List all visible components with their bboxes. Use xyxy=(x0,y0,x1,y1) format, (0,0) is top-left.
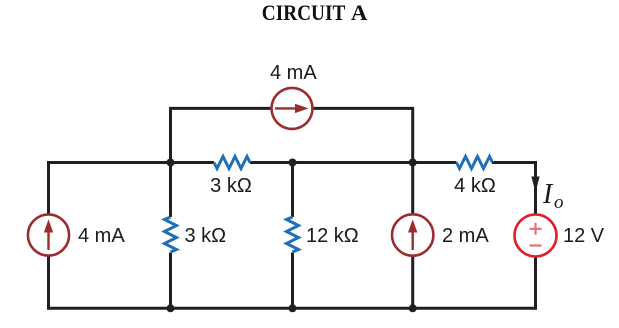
node junction dot bottom rail center xyxy=(289,304,297,312)
current source I2 arrow up xyxy=(47,230,49,250)
svg-text:I: I xyxy=(542,179,554,210)
node junction dot bottom rail left xyxy=(167,304,175,312)
wire branch 5 vertical (12 V source) xyxy=(534,161,537,310)
wire top branch right vertical drop xyxy=(411,107,414,163)
voltage source V1 plus sign xyxy=(530,223,542,235)
svg-text:4 mA: 4 mA xyxy=(78,225,125,247)
svg-text:o: o xyxy=(554,192,564,213)
resistor R1 3 kOhm horizontal zigzag xyxy=(214,157,250,169)
voltage source V1 12 V circle xyxy=(515,215,557,257)
wire branch 2 vertical lower (3 kOhm) xyxy=(169,253,172,309)
svg-text:2 mA: 2 mA xyxy=(442,225,489,247)
resistor R2 3 kOhm vertical zigzag xyxy=(165,217,177,252)
svg-text:4 kΩ: 4 kΩ xyxy=(454,175,496,197)
node junction dot bottom rail right xyxy=(409,304,417,312)
svg-text:3 kΩ: 3 kΩ xyxy=(185,225,227,247)
node junction dot middle rail left xyxy=(167,159,175,167)
current source I3 arrow up xyxy=(412,230,414,250)
wire top branch left vertical drop xyxy=(169,107,172,163)
wire middle rail segment B (3k zigzag to 4k zigzag) xyxy=(250,161,457,164)
resistor R3 12 kOhm vertical zigzag xyxy=(287,217,299,252)
wire branch 2 vertical upper (3 kOhm) xyxy=(169,163,172,218)
current source I1 4 mA top circle xyxy=(272,88,313,129)
wire branch 3 vertical lower (12 kOhm) xyxy=(291,253,294,309)
svg-text:A: A xyxy=(351,0,368,25)
node junction dot middle rail right xyxy=(409,159,417,167)
wire left branch vertical (4 mA source) xyxy=(47,161,50,310)
svg-text:12 kΩ: 12 kΩ xyxy=(306,225,359,247)
wire middle rail segment C (4k zigzag to right end) xyxy=(492,161,536,164)
wire top branch horizontal xyxy=(171,107,413,110)
wire branch 4 vertical (2 mA source) xyxy=(411,163,414,309)
current source I2 4 mA left circle xyxy=(28,214,69,255)
wire middle rail segment A (left end to 3k zigzag) xyxy=(49,161,215,164)
current source I3 2 mA circle xyxy=(392,214,433,255)
svg-text:3 kΩ: 3 kΩ xyxy=(210,175,252,197)
node junction dot middle rail center xyxy=(289,159,297,167)
wire bottom rail xyxy=(49,307,536,310)
svg-text:12 V: 12 V xyxy=(563,225,605,247)
svg-text:4 mA: 4 mA xyxy=(270,62,317,84)
voltage source V1 minus sign xyxy=(530,244,542,246)
current Io arrowhead down on right branch xyxy=(531,177,539,193)
resistor R4 4 kOhm horizontal zigzag xyxy=(457,157,493,169)
svg-text:CIRCUIT: CIRCUIT xyxy=(262,0,346,25)
current source I1 arrow right xyxy=(275,107,296,109)
wire branch 3 vertical upper (12 kOhm) xyxy=(291,163,294,218)
